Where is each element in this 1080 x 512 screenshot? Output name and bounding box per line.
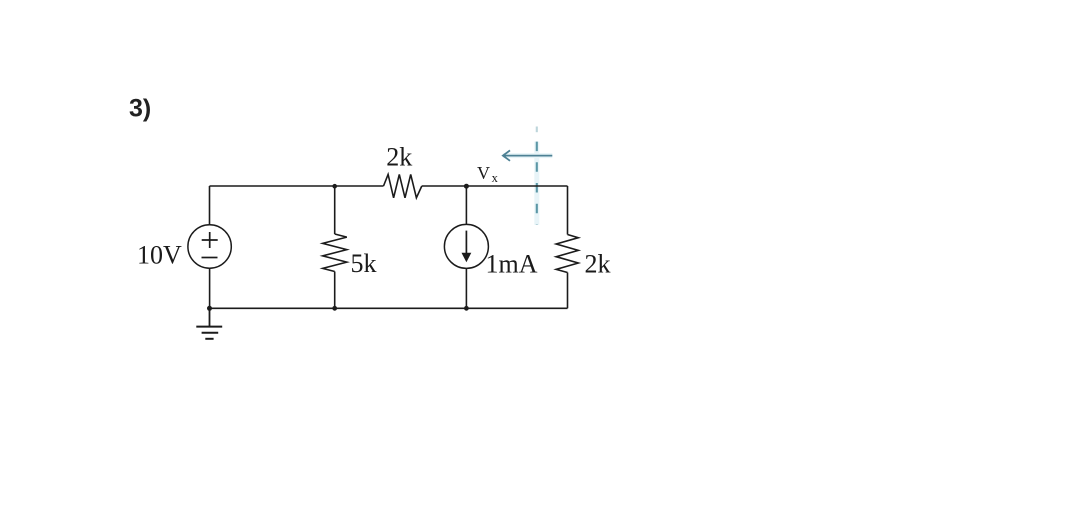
svg-text:5k: 5k bbox=[351, 249, 377, 278]
svg-text:2k: 2k bbox=[386, 143, 412, 172]
svg-text:3): 3) bbox=[129, 95, 151, 123]
svg-text:1mA: 1mA bbox=[486, 249, 538, 278]
svg-text:x: x bbox=[492, 171, 499, 185]
svg-text:10V: 10V bbox=[137, 241, 182, 270]
svg-text:2k: 2k bbox=[585, 249, 611, 278]
svg-text:V: V bbox=[477, 163, 490, 183]
